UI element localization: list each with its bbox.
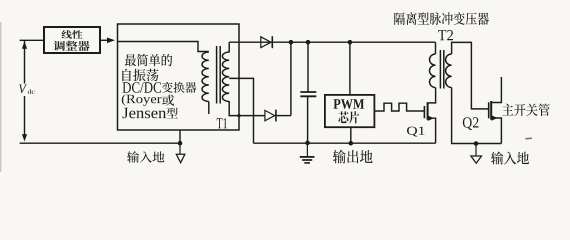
transformer T2 secondary winding (446, 54, 452, 88)
label 调整器 (54, 41, 90, 51)
label DC/DC变换器 (123, 82, 197, 93)
wire PWM supply (349, 42, 351, 95)
transistor Q1 source lead (428, 116, 436, 144)
diode D2 bottom rectifier (265, 110, 276, 122)
label 芯片 (338, 111, 359, 123)
transformer T2 core (440, 50, 443, 89)
label T1 (217, 118, 227, 128)
label PWM (334, 99, 365, 109)
label Q1 (407, 127, 425, 137)
transistor Q2 channel bar (490, 101, 492, 120)
transistor Q1 channel bar (427, 102, 429, 120)
wire rail into T2 primary (435, 42, 437, 54)
node input arrow down (22, 134, 27, 141)
wire output ground rail (254, 142, 436, 144)
arrow into converter box (107, 38, 115, 44)
block linear regulator 线性调整器 (44, 27, 100, 53)
wire T2 secondary top to Q2 gate (452, 42, 489, 109)
label 最简单的 (125, 54, 173, 67)
capacitor filter cap (300, 42, 316, 143)
wire speck artifact (526, 137, 533, 140)
wire PWM ground lead (350, 127, 352, 143)
block self-oscillating DC/DC converter box (118, 24, 240, 130)
node filter cap top junction (306, 40, 311, 45)
wire converter box ground stem (179, 130, 181, 143)
wire Vdc vertical lower (24, 96, 26, 136)
node junction input ground (178, 141, 183, 146)
transformer T1 secondary winding (222, 52, 229, 102)
block PWM chip (325, 95, 375, 127)
ground output ground (earth) (300, 143, 315, 163)
wire rectifier join vertical (290, 42, 292, 115)
node PWM ground junction (349, 141, 354, 146)
wire D2 cathode to join (276, 115, 291, 117)
node ink blob at box edge crossing (237, 114, 240, 117)
transformer T2 primary winding (429, 54, 435, 88)
wire T1 center tap (229, 78, 253, 143)
wire regulator output (100, 39, 108, 41)
transistor Q2 drain lead (491, 77, 501, 103)
wire T1 secondary bottom (229, 101, 265, 116)
wire Vdc vertical upper (24, 41, 26, 84)
transistor Q1 gate bar (423, 106, 425, 118)
wire T1 secondary top to rail (228, 42, 230, 52)
wire top-left input (20, 39, 44, 41)
label 线性 (62, 30, 83, 39)
label 输入地 left (127, 151, 165, 162)
wire input ground rail left (20, 142, 182, 144)
ground input ground right (open triangle) (471, 144, 482, 164)
label 主开关管 (502, 104, 550, 117)
label 自振荡 (122, 69, 158, 82)
label 隔离型脉冲变压器 (394, 12, 489, 25)
label Vdc (19, 85, 35, 94)
transistor Q2 gate bar (488, 102, 490, 118)
ground input ground symbol (open triangle) (176, 143, 185, 163)
node input ground junction right (474, 141, 479, 146)
transformer T1 primary winding (202, 52, 209, 102)
label (Royer或 (122, 94, 175, 106)
waveform PWM gate pulses (374, 103, 424, 111)
label 输入地 right (491, 152, 529, 165)
diode D1 top rectifier (261, 36, 273, 48)
label Jensen型 (123, 108, 178, 119)
label 输出地 (333, 150, 373, 164)
node output ground junction (305, 141, 310, 146)
node rectifier output junction (289, 40, 294, 45)
wire top rail (229, 41, 435, 43)
label Q2 (463, 117, 479, 130)
scan edge artifact left (0, 22, 2, 172)
node Vdc input arrow up (22, 41, 27, 49)
wire T2 secondary bottom (452, 88, 502, 144)
transformer T1 core (217, 46, 221, 104)
wire converter input internal (118, 42, 209, 52)
node PWM supply junction (348, 40, 353, 45)
transistor Q1 drain lead (428, 88, 436, 103)
label T2 (438, 30, 453, 40)
transistor Q2 source lead (491, 115, 501, 143)
wire T1 primary bottom stub (208, 102, 210, 115)
